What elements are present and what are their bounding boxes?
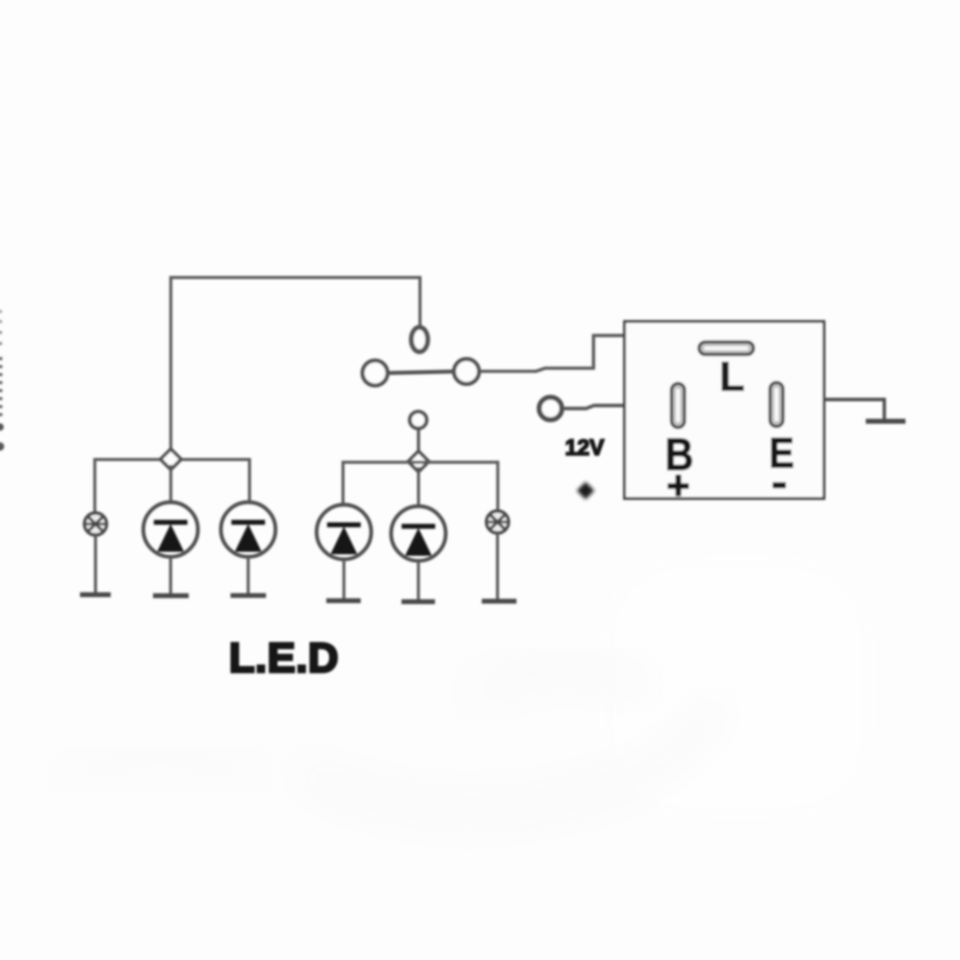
terminal slot L	[699, 342, 754, 355]
wire relay to ground	[824, 400, 884, 420]
svg-text:L.E.D: L.E.D	[229, 634, 339, 681]
terminal slot B	[672, 384, 685, 428]
wire LED D4 bottom lead	[417, 561, 420, 602]
wire LED D1 top lead	[169, 465, 172, 503]
wire 12V to relay	[563, 406, 626, 409]
ground bar bulb right	[482, 599, 517, 604]
LED D4	[391, 506, 446, 561]
label plus	[668, 475, 690, 497]
svg-text:12V: 12V	[565, 435, 604, 460]
wire top horizontal	[171, 276, 421, 279]
ground bar D3	[326, 598, 360, 603]
wire bulb right lead	[496, 533, 499, 601]
wire left bus	[95, 458, 250, 461]
LED D3	[317, 505, 372, 560]
bulb lamp right	[487, 511, 509, 533]
wire LED D1 bottom lead	[169, 557, 172, 596]
small contact circle	[410, 412, 427, 429]
svg-text:L: L	[720, 354, 745, 400]
plus marker diamond	[577, 482, 595, 500]
wire right bus	[343, 461, 498, 464]
wire LED D2 bottom lead	[247, 557, 250, 596]
left edge watermark residue	[0, 310, 4, 451]
wire small circle lead	[417, 429, 420, 453]
ground bar bulb left	[80, 592, 111, 597]
switch contact circle left	[363, 361, 388, 386]
relay box	[625, 322, 825, 499]
ground bar right	[866, 419, 906, 424]
wire right leg down	[496, 461, 499, 512]
wire bulb left lead	[94, 535, 97, 594]
wire right vertical to oval	[419, 276, 422, 328]
faint watermark haze bottom center	[60, 570, 860, 810]
bulb lamp left	[85, 513, 107, 535]
wire LED D3 top lead	[342, 461, 345, 506]
wire switch to relay	[480, 336, 626, 372]
switch contact circle right	[454, 359, 479, 384]
wire LED D4 top lead	[417, 467, 420, 507]
ground bar D4	[402, 599, 436, 604]
ring terminal 12V	[539, 397, 562, 420]
switch bar wire	[388, 372, 454, 374]
LED D1	[143, 502, 198, 557]
junction node left	[160, 449, 181, 470]
svg-text:B: B	[665, 430, 694, 480]
junction node right	[408, 451, 429, 472]
LED D2	[221, 502, 276, 557]
ground bar D1	[153, 593, 189, 598]
wire left vertical drop	[169, 276, 172, 453]
wire LED D3 bottom lead	[342, 559, 345, 600]
terminal slot E	[770, 383, 783, 427]
ground bar D2	[231, 593, 267, 598]
label minus	[773, 482, 787, 488]
svg-text:E: E	[769, 428, 794, 477]
wire left leg down	[93, 458, 96, 514]
oval contact terminal	[411, 327, 427, 351]
wire LED D2 top lead	[248, 458, 251, 503]
